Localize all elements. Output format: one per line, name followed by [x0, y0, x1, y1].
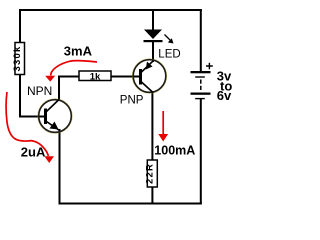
- svg-text:LED: LED: [158, 48, 180, 60]
- svg-text:6v: 6v: [217, 88, 232, 103]
- svg-text:1k: 1k: [90, 71, 101, 82]
- svg-text:NPN: NPN: [27, 84, 52, 98]
- svg-text:3mA: 3mA: [64, 44, 93, 59]
- svg-text:22R: 22R: [145, 163, 156, 184]
- svg-text:100mA: 100mA: [154, 144, 195, 158]
- svg-text:PNP: PNP: [120, 95, 144, 107]
- svg-text:330k: 330k: [12, 46, 23, 72]
